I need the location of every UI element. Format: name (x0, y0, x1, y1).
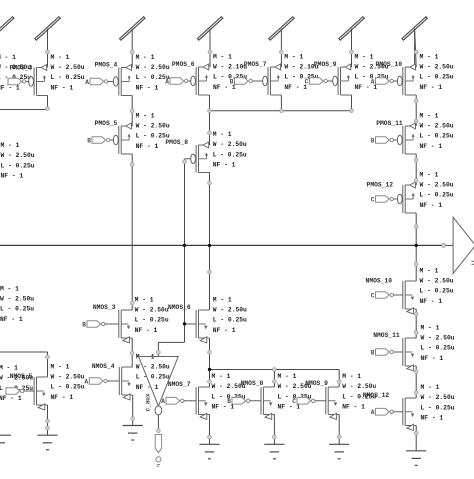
svg-text:NMOS_5: NMOS_5 (10, 373, 33, 380)
svg-text:PMOS_4: PMOS_4 (95, 62, 118, 69)
svg-text:W - 2.50u: W - 2.50u (420, 278, 454, 285)
vdd supply symbol (partial, left edge) (0, 17, 14, 40)
junction: NMOS_7 column x nmos bus (208, 368, 211, 371)
svg-text:W - 2.50u: W - 2.50u (213, 141, 247, 148)
svg-text:NF - 1: NF - 1 (213, 162, 236, 169)
wire: nmos drain bus (210, 369, 340, 371)
svg-text:B: B (227, 398, 231, 405)
svg-text:A: A (85, 79, 89, 86)
pmos PMOS_5 (87, 112, 170, 154)
text fragments of cropped transistor at left edge (lower middle) (0, 285, 34, 323)
junction: feedback vertical x main net (183, 244, 186, 247)
wire: left edge to NMOS_5 drain (0, 352, 48, 377)
ground G3 (199, 444, 219, 459)
svg-text:NMOS_10: NMOS_10 (366, 277, 393, 284)
ground G4 (264, 444, 284, 459)
svg-text:A: A (165, 78, 169, 85)
svg-text:M - 1: M - 1 (212, 373, 231, 380)
svg-text:W - 2.50u: W - 2.50u (0, 296, 34, 303)
svg-text:W - 2.50u: W - 2.50u (136, 364, 170, 371)
wire: feedback to c_aux buffer input (158, 342, 184, 356)
nmos NMOS_8 (227, 373, 312, 419)
nmos NMOS_9 (292, 373, 376, 419)
svg-text:NMOS_6: NMOS_6 (168, 304, 191, 311)
wire: PMOS_6 drain down (209, 95, 211, 111)
svg-text:W - 2.50u: W - 2.50u (136, 64, 170, 71)
svg-text:L - 0.25u: L - 0.25u (420, 192, 454, 199)
svg-text:PMOS_6: PMOS_6 (172, 61, 195, 68)
svg-text:NMOS_9: NMOS_9 (305, 380, 328, 387)
vdd supply symbol V6 (402, 17, 427, 67)
svg-text:B: B (230, 78, 234, 85)
wire: PMOS_12 drain to main net to NMOS_10 drain (415, 213, 417, 281)
svg-text:M - 1: M - 1 (420, 53, 439, 60)
svg-text:W - 2.50u: W - 2.50u (1, 152, 35, 159)
svg-text:NF - 1: NF - 1 (135, 327, 158, 334)
wire: NMOS_8 source to ground (273, 415, 275, 445)
nmos NMOS_3 (82, 296, 169, 343)
wire: PMOS_5 drain down to NMOS_3 drain (crosses main net) (131, 154, 133, 310)
svg-text:NF - 1: NF - 1 (278, 404, 301, 411)
nmos NMOS_12 (363, 384, 455, 430)
svg-text:PMOS_7: PMOS_7 (244, 61, 267, 68)
nmos NMOS_7 (161, 373, 246, 419)
nmos NMOS_6 (168, 296, 247, 343)
wire: main output net (horizontal) (0, 244, 442, 246)
wire: NMOS_10 source to NMOS_11 drain (415, 309, 417, 338)
output pin c_aux (vertical tag) (155, 415, 161, 466)
svg-text:M - 1: M - 1 (0, 285, 19, 292)
svg-text:M - 1: M - 1 (0, 365, 18, 372)
pmos PMOS_12 (367, 171, 454, 213)
svg-text:L - 0.25u: L - 0.25u (213, 152, 247, 159)
svg-text:M - 1: M - 1 (284, 53, 303, 60)
nmos NMOS_11 (371, 324, 455, 371)
ground G1 (37, 435, 57, 450)
svg-text:NMOS_7: NMOS_7 (168, 381, 191, 388)
ground G2 (123, 426, 143, 441)
svg-text:M - 1: M - 1 (213, 131, 232, 138)
svg-text:W - 2.50u: W - 2.50u (51, 64, 85, 71)
pmos PMOS_9 (305, 53, 389, 95)
svg-text:NF - 1: NF - 1 (421, 415, 444, 422)
svg-text:W - 2.50u: W - 2.50u (420, 123, 454, 130)
svg-text:W - 2.50u: W - 2.50u (135, 307, 169, 314)
svg-text:NF - 1: NF - 1 (420, 298, 443, 305)
wire: PMOS_8 drain to main net to NMOS_6 drain (209, 173, 211, 311)
svg-text:M - 1: M - 1 (278, 373, 297, 380)
nmos NMOS_4 (85, 353, 170, 400)
wire: bus down to PMOS_8 source (209, 111, 211, 145)
svg-text:NMOS_3: NMOS_3 (93, 304, 116, 311)
svg-text:B: B (82, 321, 86, 328)
text fragments of cropped transistor at left edge (middle) (1, 142, 35, 180)
wire: PMOS_7 drain down (280, 95, 282, 111)
svg-text:PMOS_10: PMOS_10 (376, 61, 403, 68)
svg-text:NMOS_11: NMOS_11 (373, 332, 400, 339)
svg-text:NMOS_8: NMOS_8 (241, 380, 264, 387)
svg-text:PMOS_3: PMOS_3 (10, 64, 33, 71)
svg-text:W - 2.50u: W - 2.50u (421, 394, 455, 401)
svg-text:PMOS_5: PMOS_5 (95, 120, 118, 127)
svg-text:c_aux: c_aux (144, 393, 151, 411)
vdd supply symbol V1 (35, 17, 60, 67)
svg-text:W - 2.50u: W - 2.50u (342, 383, 376, 390)
svg-text:W - 2.50u: W - 2.50u (51, 374, 85, 381)
svg-text:PMOS_11: PMOS_11 (376, 120, 403, 127)
svg-text:W - 2.10u: W - 2.10u (213, 64, 247, 71)
vdd supply symbol V4 (269, 17, 294, 67)
pmos PMOS_8 (165, 131, 247, 172)
svg-text:NF - 1: NF - 1 (51, 394, 74, 401)
svg-text:NF - 1: NF - 1 (51, 84, 74, 91)
svg-text:NF - 1: NF - 1 (136, 84, 159, 91)
svg-text:A: A (85, 378, 89, 385)
pmos PMOS_4 (85, 54, 170, 96)
nmos NMOS_10 (366, 267, 454, 314)
wire: NMOS_6 source to NMOS_7 drain (209, 338, 211, 387)
text fragments of cropped transistor at left edge (top) (0, 54, 33, 92)
wire: bus down to NMOS_8 drain (273, 370, 275, 388)
svg-text:M - 1: M - 1 (355, 53, 374, 60)
svg-text:NMOS_12: NMOS_12 (363, 392, 390, 399)
svg-text:NF - 1: NF - 1 (1, 173, 24, 180)
vdd supply symbol V2 (120, 17, 145, 67)
svg-text:M - 1: M - 1 (420, 112, 439, 119)
svg-text:W - 2.50u: W - 2.50u (213, 307, 247, 314)
ground (partial, left edge) (0, 435, 11, 443)
pmos PMOS_6 (165, 53, 247, 95)
svg-text:M - 1: M - 1 (135, 296, 154, 303)
svg-text:L - 0.25u: L - 0.25u (420, 133, 454, 140)
ground G5 (329, 444, 349, 459)
svg-text:W - 2.50u: W - 2.50u (421, 335, 455, 342)
svg-text:NF - 1: NF - 1 (136, 384, 159, 391)
svg-text:M - 1: M - 1 (213, 53, 232, 60)
svg-text:M - 1: M - 1 (213, 296, 232, 303)
svg-text:L - 0.25u: L - 0.25u (1, 162, 35, 169)
svg-text:L - 0.25u: L - 0.25u (421, 345, 455, 352)
junction: right stack x main net (415, 244, 418, 247)
buffer c_aux (downward triangle) (139, 357, 179, 415)
svg-text:NF - 1: NF - 1 (213, 327, 236, 334)
svg-text:M - 1: M - 1 (51, 363, 70, 370)
wire: PMOS_10 drain to PMOS_11 source (415, 95, 417, 126)
svg-text:L - 0.25u: L - 0.25u (51, 74, 85, 81)
svg-text:NF - 1: NF - 1 (420, 202, 443, 209)
svg-text:L - 0.25u: L - 0.25u (136, 374, 170, 381)
wire: pmos drain bus (210, 110, 352, 112)
svg-text:M - 1: M - 1 (421, 324, 440, 331)
wire: NMOS_7 source to ground (209, 415, 211, 445)
wire: NMOS_5 source to ground (47, 405, 49, 435)
svg-text:M - 1: M - 1 (1, 142, 20, 149)
svg-text:M - 1: M - 1 (421, 384, 440, 391)
svg-text:W - 2.50u: W - 2.50u (420, 64, 454, 71)
svg-text:W - 2.50u: W - 2.50u (136, 123, 170, 130)
svg-text:L - 0.25u: L - 0.25u (0, 306, 34, 313)
pmos PMOS_7 (230, 53, 319, 95)
svg-text:NF - 1: NF - 1 (342, 404, 365, 411)
svg-text:M - 1: M - 1 (136, 54, 155, 61)
vdd supply symbol V5 (339, 17, 364, 67)
wire: NMOS_11 source to NMOS_12 drain (415, 366, 417, 398)
svg-text:A: A (371, 409, 375, 416)
svg-text:W - 2.50u: W - 2.50u (420, 182, 454, 189)
svg-text:B: B (371, 349, 375, 356)
svg-text:NF - 1: NF - 1 (0, 84, 20, 91)
pmos PMOS_3 (8, 54, 85, 96)
svg-text:NF - 1: NF - 1 (212, 404, 235, 411)
svg-text:M - 1: M - 1 (342, 373, 361, 380)
svg-text:C: C (371, 292, 375, 299)
svg-text:B: B (87, 137, 91, 144)
svg-text:C: C (292, 398, 296, 405)
svg-text:M - 1: M - 1 (136, 112, 155, 119)
svg-text:L - 0.25u: L - 0.25u (51, 384, 85, 391)
svg-text:L - 0.25u: L - 0.25u (135, 317, 169, 324)
wire: PMOS_11 drain to PMOS_12 source (415, 154, 417, 185)
svg-text:NF - 1: NF - 1 (0, 395, 22, 402)
svg-text:L - 0.25u: L - 0.25u (420, 74, 454, 81)
terminal dots (grey) (46, 50, 419, 439)
text fragments of cropped transistor at left edge (bottom) (0, 365, 33, 403)
svg-text:C: C (305, 78, 309, 85)
svg-text:A: A (161, 398, 165, 405)
svg-text:NF - 1: NF - 1 (420, 84, 443, 91)
svg-text:A: A (371, 78, 375, 85)
svg-text:NF - 1: NF - 1 (420, 143, 443, 150)
vdd supply symbol V3 (197, 17, 222, 67)
svg-text:M - 1: M - 1 (420, 171, 439, 178)
wire: NMOS_3 source to NMOS_4 drain (131, 338, 133, 367)
wire: PMOS_4 drain to PMOS_5 source (131, 96, 133, 127)
junction: NMOS_6 gate tap (183, 322, 186, 325)
svg-text:C: C (371, 196, 375, 203)
svg-text:M - 1: M - 1 (0, 54, 16, 61)
ground G6 (406, 451, 426, 466)
svg-text:PMOS_8: PMOS_8 (165, 139, 188, 146)
nmos NMOS_5 (cropped left) (6, 363, 85, 410)
svg-text:L - 0.25u: L - 0.25u (421, 404, 455, 411)
wire: NMOS_9 source to ground (338, 415, 340, 445)
svg-text:NMOS_4: NMOS_4 (92, 363, 115, 370)
wire: PMOS_9 drain down (351, 95, 353, 111)
svg-text:PMOS_9: PMOS_9 (314, 61, 337, 68)
wire: PMOS_3 drain to left edge (0, 96, 48, 110)
svg-text:NF - 1: NF - 1 (136, 143, 159, 150)
svg-text:B: B (371, 137, 375, 144)
svg-text:L - 0.25u: L - 0.25u (420, 288, 454, 295)
wire: NMOS_4 source to ground (132, 395, 134, 426)
svg-text:PMOS_12: PMOS_12 (367, 181, 394, 188)
svg-text:NF - 1: NF - 1 (0, 316, 23, 323)
junction: PMOS_8 drain column x main net (208, 244, 211, 247)
pmos PMOS_10 (371, 53, 454, 95)
wire: feedback vertical (PMOS_8/NMOS_6 gates to main net) (184, 159, 186, 343)
pmos PMOS_11 (371, 112, 454, 154)
svg-text:M - 1: M - 1 (420, 267, 439, 274)
svg-text:NF - 1: NF - 1 (421, 355, 444, 362)
svg-text:M - 1: M - 1 (51, 54, 70, 61)
wire: bus down to NMOS_9 drain (338, 370, 340, 388)
output buffer (right edge triangle) (442, 217, 474, 273)
svg-text:L - 0.25u: L - 0.25u (213, 317, 247, 324)
wire: NMOS_12 source to ground (415, 426, 417, 451)
